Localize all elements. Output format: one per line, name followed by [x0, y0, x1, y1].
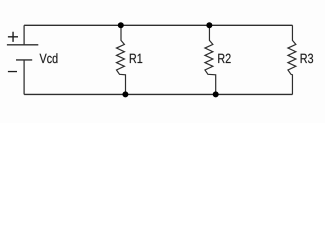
junction node dot R2 top: [206, 22, 212, 28]
resistor R3 body (right branch): [288, 25, 296, 94]
node A: top rail wire: [24, 24, 292, 26]
junction node dot R1 bottom: [122, 91, 128, 97]
battery Vcd positive plate: [7, 44, 38, 46]
resistor R1 label: [130, 54, 142, 63]
resistor R1 body: [117, 25, 126, 94]
resistor R2 label: [218, 54, 230, 63]
battery plus sign: [8, 32, 18, 42]
battery label Vcd: [40, 53, 58, 63]
junction node dot R2 bottom: [213, 91, 219, 97]
resistor R2 body: [205, 25, 216, 94]
battery Vcd negative plate: [16, 59, 32, 61]
junction node dot R1 top: [118, 22, 124, 28]
node B: bottom rail wire: [24, 93, 292, 95]
battery minus sign: [8, 71, 17, 73]
battery Vcd negative lead wire: [23, 60, 25, 95]
resistor R3 label: [301, 54, 313, 64]
battery Vcd positive lead wire: [23, 25, 25, 45]
